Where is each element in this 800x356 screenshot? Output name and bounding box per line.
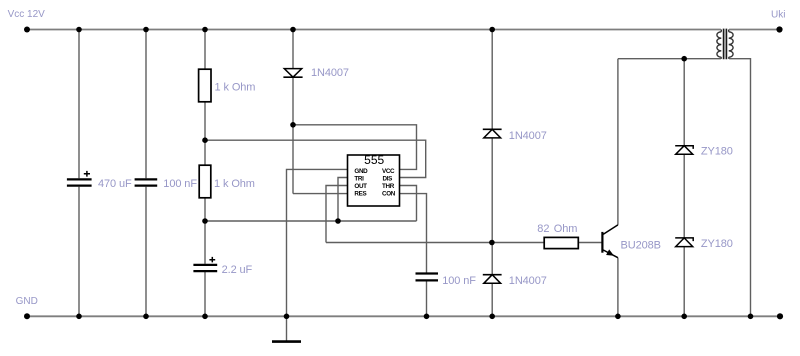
transistor Q1 emitter diagonal	[603, 250, 618, 258]
svg-text:555: 555	[364, 153, 384, 167]
node top rail at R1	[202, 27, 208, 33]
transformer T1 right winding	[729, 32, 733, 57]
svg-text:100 nF: 100 nF	[442, 275, 476, 287]
node base drive at D2-D3	[489, 240, 495, 246]
svg-text:GND: GND	[16, 296, 38, 307]
transformer T1 left winding	[717, 32, 721, 57]
node Uki terminal	[776, 26, 782, 32]
svg-text:Vcc 12V: Vcc 12V	[8, 9, 46, 20]
wire R1 top lead	[204, 30, 206, 70]
svg-text:1N4007: 1N4007	[509, 275, 547, 287]
diode D2 1N4007 cathode bar	[483, 128, 502, 130]
wire zener1 to zener2	[683, 154, 685, 238]
node bottom rail at D3	[489, 314, 495, 320]
wire D2 top lead	[491, 30, 493, 130]
diode D1 1N4007 triangle	[284, 69, 301, 78]
wire secondary bottom	[729, 59, 750, 317]
wire emitter lead	[617, 258, 619, 317]
node bottom rail left terminal	[24, 313, 30, 319]
svg-text:THR: THR	[382, 183, 395, 190]
svg-text:100 nF: 100 nF	[163, 178, 197, 190]
wire VCC pin	[293, 125, 417, 170]
svg-text:2.2 uF: 2.2 uF	[222, 264, 253, 276]
capacitor C1 470 uF plates	[67, 179, 92, 185]
wire D2 to D3	[491, 138, 493, 275]
diode D3 triangle	[484, 275, 501, 284]
diode D3 1N4007 cathode bar	[483, 274, 502, 276]
wire OUT to base resistor	[326, 242, 544, 244]
wire ground symbol stem	[286, 316, 288, 341]
transistor Q1 base bar	[601, 232, 603, 253]
wire RES pin	[293, 193, 348, 195]
wire R2 to C3	[204, 198, 206, 264]
node R1-R2 junction	[202, 137, 208, 143]
node top rail left terminal	[24, 27, 30, 33]
zener Z1 ZY180 cathode bar with tick	[675, 146, 693, 149]
svg-text:82 Ohm: 82 Ohm	[537, 223, 577, 235]
node D1 cathode junction	[290, 122, 296, 128]
node top rail at D2	[489, 27, 495, 33]
node top rail at C1	[76, 27, 82, 33]
node top rail at C2	[143, 27, 149, 33]
wire D3 bottom lead	[491, 283, 493, 316]
diode D1 cathode bar	[283, 76, 302, 78]
ground symbol bar	[272, 340, 301, 343]
IC U1 555 body	[348, 155, 400, 206]
zener Z2 ZY180 cathode bar with tick	[675, 238, 693, 241]
wire GND pin	[287, 169, 348, 316]
capacitor C2 100 nF plates	[135, 179, 158, 185]
capacitor C3 plus sign	[209, 257, 215, 263]
capacitor C4 100 nF plates	[416, 274, 439, 281]
wire C1 bottom lead	[78, 187, 80, 317]
svg-text:TRI: TRI	[354, 175, 364, 182]
svg-text:1 k Ohm: 1 k Ohm	[215, 82, 256, 94]
node TRI-THR junction	[335, 218, 341, 224]
svg-text:RES: RES	[354, 190, 366, 197]
svg-text:1 k Ohm: 1 k Ohm	[214, 178, 255, 190]
svg-text:1N4007: 1N4007	[509, 130, 547, 142]
wire R1 to R2	[204, 102, 206, 165]
svg-text:DIS: DIS	[383, 175, 393, 182]
wire C2 top lead	[145, 30, 147, 179]
zener Z2 triangle	[676, 238, 693, 247]
node bottom rail at secondary	[748, 314, 754, 320]
wire DIS pin	[205, 140, 426, 177]
node bottom rail at zener chain	[681, 314, 687, 320]
diode D2 triangle	[484, 129, 501, 138]
svg-text:470 uF: 470 uF	[98, 178, 132, 190]
capacitor C1 plus sign	[84, 171, 90, 177]
resistor R3 82 Ohm	[544, 237, 578, 248]
transformer T1 core lines	[724, 29, 727, 60]
resistor R1 1 k Ohm	[199, 69, 211, 102]
svg-text:ZY180: ZY180	[701, 146, 733, 158]
wire node R2 bottom to THR leg	[205, 220, 417, 222]
resistor R2 1 k Ohm	[199, 165, 211, 198]
transformer T1 winding stubs	[721, 30, 728, 59]
wire C3 bottom lead	[204, 272, 206, 316]
node bottom rail at C3	[202, 314, 208, 320]
wire D1 top lead	[292, 30, 294, 69]
wire THR pin	[400, 186, 417, 222]
transistor Q1 emitter arrow	[607, 250, 613, 255]
node bottom rail at C1	[76, 314, 82, 320]
svg-text:BU208B: BU208B	[621, 239, 661, 251]
wire zener chain top	[683, 59, 685, 146]
svg-text:VCC: VCC	[382, 168, 395, 175]
node bottom rail at ground symbol	[284, 314, 290, 320]
svg-text:ZY180: ZY180	[701, 238, 733, 250]
wire OUT pin	[326, 186, 348, 243]
wire top rail right segment to Uki	[729, 29, 779, 31]
svg-text:1N4007: 1N4007	[311, 67, 349, 79]
wire collector lead	[617, 59, 619, 225]
transistor Q1 collector diagonal	[603, 225, 618, 234]
node bottom rail at C4	[424, 314, 430, 320]
wire D1 cathode down to RES row	[292, 77, 294, 193]
svg-text:GND: GND	[354, 168, 368, 175]
wire top supply rail	[27, 29, 721, 31]
wire primary bottom to collector	[618, 58, 721, 60]
wire base resistor to transistor base	[578, 242, 601, 244]
node top rail at D1	[290, 27, 296, 33]
capacitor C3 2.2 uF plates	[193, 265, 217, 271]
node R2-C3 junction	[202, 218, 208, 224]
svg-text:OUT: OUT	[354, 183, 367, 190]
wire bottom ground rail	[27, 315, 781, 317]
wire C2 bottom lead	[145, 187, 147, 317]
wire C4 bottom lead	[426, 281, 428, 316]
node bottom rail right terminal	[777, 313, 783, 319]
wire zener2 to ground rail	[683, 247, 685, 317]
svg-text:CON: CON	[382, 190, 396, 197]
wire CON pin	[400, 194, 427, 273]
svg-text:Uki: Uki	[771, 9, 785, 20]
node collector at zener chain	[681, 56, 687, 62]
node bottom rail at C2	[143, 314, 149, 320]
zener Z1 triangle	[676, 146, 693, 155]
wire C1 top lead	[78, 30, 80, 179]
wire TRI pin	[338, 178, 348, 222]
node bottom rail at emitter	[615, 314, 621, 320]
